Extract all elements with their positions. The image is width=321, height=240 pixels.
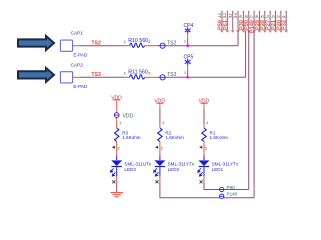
- pad CAP2: [60, 72, 72, 83]
- wire VDD down: [159, 108, 161, 124]
- wire net TS2: [80, 45, 125, 47]
- connector pin 3: [232, 11, 234, 13]
- svg-text:CAP1: CAP1: [71, 31, 84, 36]
- svg-text:7: 7: [250, 15, 254, 17]
- svg-text:CP4: CP4: [184, 23, 194, 29]
- wire testpoint CP5: [187, 70, 189, 77]
- connector pin 6: [248, 11, 250, 13]
- resistor R11 pin 1: [125, 76, 130, 78]
- svg-text:P90: P90: [227, 185, 236, 190]
- svg-text:R11 560: R11 560: [128, 70, 148, 76]
- connector pin 5: [242, 11, 244, 13]
- resistor R1 pin 2: [203, 142, 205, 156]
- svg-text:1: 1: [162, 121, 164, 125]
- resistor R2 body: [158, 128, 162, 142]
- LED LED1: [203, 156, 205, 161]
- resistor R10 pin 1: [125, 45, 130, 47]
- svg-text:P32: P32: [282, 20, 288, 30]
- wire LED3 to ground: [116, 184, 118, 193]
- wire LED2 down to rail: [159, 184, 161, 198]
- svg-text:LED1: LED1: [212, 167, 224, 172]
- pin 6 mark: [247, 30, 250, 32]
- connector body edge: [220, 17, 289, 19]
- svg-text:SML-311UTx: SML-311UTx: [124, 162, 151, 167]
- svg-text:2: 2: [161, 147, 163, 151]
- svg-text:10: 10: [234, 13, 238, 17]
- pin of CAP1: [73, 45, 80, 47]
- arrow marker 2: [18, 68, 54, 82]
- svg-text:E-PAD: E-PAD: [73, 53, 88, 58]
- off-page port VDD: [114, 113, 119, 118]
- off-page port TS3: [160, 75, 165, 80]
- off-page port TS2: [160, 43, 165, 48]
- connector pin 8: [258, 11, 260, 13]
- LED LED3 emission arrows: [110, 168, 113, 172]
- svg-text:LED2: LED2: [168, 167, 180, 172]
- connector pin 9: [264, 11, 266, 13]
- pin 8 mark: [258, 30, 261, 32]
- svg-text:2: 2: [277, 15, 281, 17]
- svg-text:CAP2: CAP2: [71, 62, 84, 67]
- connector pin 11: [275, 11, 277, 13]
- pin 12 mark: [280, 30, 283, 32]
- connector pin 13: [285, 11, 287, 13]
- resistor R3 pin 2: [116, 142, 118, 156]
- LED LED2 emission arrows: [154, 168, 157, 172]
- LED LED2: [159, 156, 161, 161]
- pin 13 mark: [285, 30, 288, 32]
- pin 1 mark: [221, 30, 224, 32]
- pin 2 mark: [226, 30, 229, 32]
- svg-text:SML-311YTx: SML-311YTx: [212, 162, 239, 167]
- svg-text:4: 4: [266, 15, 270, 17]
- wire rail P90: [204, 189, 249, 191]
- connector pin 4: [237, 11, 239, 13]
- svg-text:9: 9: [239, 15, 243, 17]
- LED LED3 cathode lead: [116, 167, 118, 176]
- svg-text:E-PAD: E-PAD: [73, 84, 88, 89]
- svg-text:1.6Kohm: 1.6Kohm: [122, 135, 141, 140]
- connector pin 1: [221, 11, 223, 13]
- testpoint CP4 pin 1: [187, 33, 189, 39]
- svg-text:SML-311YTx: SML-311YTx: [168, 162, 195, 167]
- wire to port: [158, 45, 161, 47]
- wire testpoint CP4: [187, 39, 189, 46]
- resistor R11 pin 2: [145, 76, 158, 78]
- wire row1 up to connector pin 4: [237, 31, 239, 46]
- no-ERC mark: [112, 180, 115, 183]
- resistor R10 body: [130, 43, 145, 47]
- wire rail P140: [160, 197, 254, 199]
- connector pin 2: [226, 11, 228, 13]
- svg-text:1: 1: [184, 40, 186, 44]
- svg-text:1: 1: [184, 71, 186, 75]
- svg-text:1: 1: [119, 121, 121, 125]
- wire row1 right: [165, 45, 238, 47]
- wire row2 right: [165, 76, 245, 78]
- LED LED3: [116, 156, 118, 161]
- off-page port P140: [220, 194, 224, 198]
- svg-text:VDD: VDD: [123, 113, 134, 119]
- no-ERC mark: [200, 180, 203, 183]
- testpoint CP5 pin 1: [187, 65, 189, 71]
- svg-text:5: 5: [261, 15, 265, 17]
- connector pin 10: [269, 11, 271, 13]
- svg-text:TS3: TS3: [91, 72, 101, 78]
- svg-text:TS2: TS2: [91, 40, 101, 46]
- svg-text:6: 6: [255, 15, 259, 17]
- pin 5 mark: [242, 30, 245, 32]
- svg-text:13: 13: [218, 13, 222, 17]
- resistor R2 pin 2: [159, 142, 161, 156]
- wire row2 up to connector pin 5: [245, 31, 247, 78]
- svg-text:2: 2: [205, 147, 207, 151]
- svg-text:1.6Kohm: 1.6Kohm: [165, 135, 184, 140]
- svg-text:P61: P61: [223, 20, 229, 30]
- svg-text:3: 3: [271, 15, 275, 17]
- resistor R2 pin 1: [159, 124, 161, 128]
- pin 3 mark: [231, 30, 234, 32]
- resistor R10 pin 2: [145, 45, 158, 47]
- LED LED1 emission arrows: [198, 168, 201, 172]
- svg-text:8: 8: [245, 15, 249, 17]
- resistor R1 body: [202, 128, 206, 142]
- svg-text:1.6Kohm: 1.6Kohm: [210, 135, 229, 140]
- svg-text:P140: P140: [227, 191, 238, 196]
- connector pin 7: [253, 11, 255, 13]
- LED LED1 cathode lead: [203, 167, 205, 176]
- svg-text:LED3: LED3: [124, 167, 136, 172]
- connector pin 12: [280, 11, 282, 13]
- pin 4 mark: [237, 30, 240, 32]
- svg-text:1: 1: [206, 121, 208, 125]
- arrow marker 1: [18, 36, 54, 50]
- junction: [186, 76, 189, 79]
- resistor R1 pin 1: [203, 124, 205, 128]
- pad CAP1: [60, 40, 72, 51]
- svg-text:1: 1: [282, 15, 286, 17]
- pin of CAP2: [73, 76, 80, 78]
- wire LED1 down to rail: [203, 184, 205, 190]
- off-page port P90: [220, 187, 224, 191]
- pin 11 mark: [274, 30, 277, 32]
- svg-text:R10 560: R10 560: [128, 38, 148, 44]
- wire to port: [158, 76, 161, 78]
- svg-text:2: 2: [118, 147, 120, 151]
- pin 10 mark: [269, 30, 272, 32]
- resistor R3 body: [115, 128, 119, 142]
- pin 9 mark: [264, 30, 267, 32]
- pin 7 mark: [253, 30, 256, 32]
- svg-text:CP5: CP5: [184, 55, 194, 61]
- junction: [186, 44, 189, 47]
- resistor R3 pin 1: [116, 118, 118, 129]
- resistor R11 body: [130, 75, 145, 79]
- ground symbol: [110, 193, 123, 197]
- LED LED2 cathode lead: [159, 167, 161, 176]
- no-ERC mark: [156, 180, 159, 183]
- wire VDD down: [203, 108, 205, 124]
- wire connector pin6 down to rail P90: [248, 31, 250, 190]
- svg-text:11: 11: [229, 13, 233, 17]
- wire net TS3: [80, 76, 125, 78]
- wire connector pin7 down to rail P140: [253, 31, 255, 198]
- svg-text:12: 12: [223, 13, 227, 17]
